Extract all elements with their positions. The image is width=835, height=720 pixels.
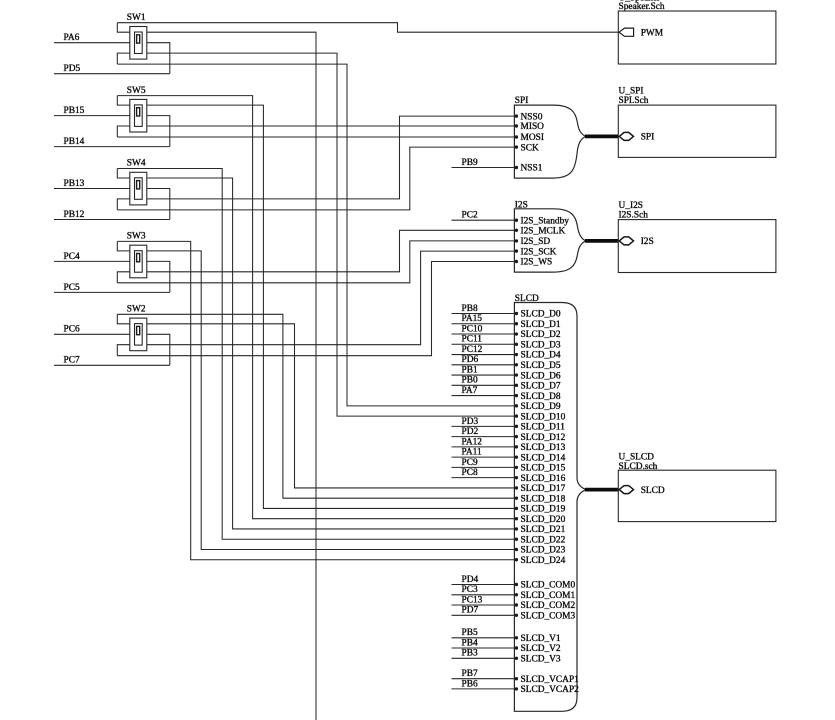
harness pin I2S_WS xyxy=(515,258,553,268)
pin label PB12 xyxy=(54,210,170,220)
svg-text:SLCD_VCAP1: SLCD_VCAP1 xyxy=(521,675,580,685)
wire SW1 top to PWM port xyxy=(117,23,618,33)
svg-text:SW4: SW4 xyxy=(127,159,146,169)
wire SW3 top to SLCD_D24 xyxy=(117,241,514,559)
svg-text:PB1: PB1 xyxy=(462,365,478,375)
svg-text:PA6: PA6 xyxy=(64,33,80,43)
wire SW3 elbow to I2S_SD xyxy=(117,241,514,283)
svg-text:I2S_Standby: I2S_Standby xyxy=(521,216,570,226)
harness pin SLCD_D10 xyxy=(515,412,566,422)
harness pin SLCD_D0 xyxy=(515,310,561,320)
harness pin SLCD_COM1 xyxy=(515,591,576,601)
svg-text:PC4: PC4 xyxy=(64,252,80,262)
sheet symbol U_SLCD xyxy=(618,453,776,522)
wire SW4 top to SLCD_D22 xyxy=(117,169,514,540)
wire SW4 top elbow xyxy=(117,169,130,179)
wire SW4 row2 to lower pin xyxy=(147,189,170,220)
wire SW5 top to SLCD_D20 xyxy=(117,96,514,519)
wire SW4 row3 elbow xyxy=(117,199,130,210)
svg-text:PB15: PB15 xyxy=(64,106,85,116)
harness pin SLCD_D24 xyxy=(515,556,566,566)
sheet symbol U_I2S xyxy=(618,201,776,273)
svg-text:PB12: PB12 xyxy=(64,210,85,220)
pin label PA6 xyxy=(54,33,130,43)
harness pin SLCD_VCAP2 xyxy=(515,685,579,695)
wire SW5 row1 to SLCD_D19 xyxy=(147,105,515,508)
svg-text:SLCD_COM3: SLCD_COM3 xyxy=(521,612,576,622)
harness cable SLCD xyxy=(585,488,620,492)
harness pin SLCD_D2 xyxy=(515,330,561,340)
pin label PD4 xyxy=(452,575,515,585)
svg-text:SLCD_D19: SLCD_D19 xyxy=(521,505,566,515)
switch SW5 xyxy=(127,86,147,132)
svg-text:PD5: PD5 xyxy=(64,64,81,74)
svg-text:PB5: PB5 xyxy=(462,628,478,638)
port PWM xyxy=(619,28,664,38)
harness pin SLCD_D23 xyxy=(515,546,566,556)
svg-text:SLCD_VCAP2: SLCD_VCAP2 xyxy=(521,685,580,695)
wire SW1 row2 to lower pin xyxy=(147,43,170,74)
pin label PD2 xyxy=(452,427,515,437)
svg-text:I2S_SD: I2S_SD xyxy=(521,237,551,247)
harness pin SLCD_D14 xyxy=(515,453,566,463)
wire SW1 top elbow xyxy=(117,23,130,33)
svg-text:SLCD_D20: SLCD_D20 xyxy=(521,515,566,525)
svg-text:PB7: PB7 xyxy=(462,669,478,679)
svg-text:SLCD: SLCD xyxy=(641,486,665,496)
harness pin NSS0 xyxy=(515,112,543,122)
svg-text:SLCD_D9: SLCD_D9 xyxy=(521,402,561,412)
svg-text:PC6: PC6 xyxy=(64,325,80,335)
wire SW5 row3 elbow xyxy=(117,126,130,137)
svg-text:SLCD_D0: SLCD_D0 xyxy=(521,310,561,320)
harness pin I2S_MCLK xyxy=(515,227,566,237)
pin label PB13 xyxy=(54,179,130,189)
svg-text:SLCD_D13: SLCD_D13 xyxy=(521,443,566,453)
svg-text:SLCD_COM0: SLCD_COM0 xyxy=(521,581,576,591)
harness pin SLCD_D21 xyxy=(515,525,566,535)
harness connector I2S xyxy=(514,200,585,272)
harness connector SPI xyxy=(514,96,585,178)
svg-text:NSS1: NSS1 xyxy=(521,164,543,174)
pin label PB1 xyxy=(452,365,515,375)
harness pin SLCD_D18 xyxy=(515,494,566,504)
svg-text:SLCD_D16: SLCD_D16 xyxy=(521,474,566,484)
svg-text:PD7: PD7 xyxy=(462,606,479,616)
wire SW4 row1 to SLCD_D21 xyxy=(147,178,515,529)
svg-text:PC3: PC3 xyxy=(462,585,478,595)
harness pin MISO xyxy=(515,122,544,132)
wire SW2 elbow to I2S_WS xyxy=(117,262,514,356)
svg-text:SLCD_D18: SLCD_D18 xyxy=(521,494,566,504)
harness pin SLCD_D16 xyxy=(515,474,566,484)
port SLCD xyxy=(619,486,665,496)
harness pin SLCD_D8 xyxy=(515,392,561,402)
svg-text:SW1: SW1 xyxy=(127,13,146,23)
svg-text:SLCD_COM2: SLCD_COM2 xyxy=(521,601,576,611)
svg-text:PB13: PB13 xyxy=(64,179,85,189)
sheet symbol U_Speaker xyxy=(618,0,776,64)
svg-text:SLCD_V3: SLCD_V3 xyxy=(521,655,561,665)
pin label PC8 xyxy=(452,468,515,478)
svg-text:SW3: SW3 xyxy=(127,232,146,242)
wire SW1 elbow to SLCD_D9 xyxy=(117,64,514,406)
svg-text:SLCD_D22: SLCD_D22 xyxy=(521,535,566,545)
wire SW4 elbow to SPI SCK xyxy=(117,147,514,210)
svg-text:SLCD_D15: SLCD_D15 xyxy=(521,464,566,474)
wire SW5 elbow to SPI MOSI xyxy=(117,136,514,138)
wire SW3 row3 elbow xyxy=(117,272,130,283)
svg-text:PB0: PB0 xyxy=(462,376,478,386)
svg-text:SLCD_D23: SLCD_D23 xyxy=(521,546,566,556)
wire SW2 row3 elbow xyxy=(117,345,130,356)
harness pin SLCD_D13 xyxy=(515,443,566,453)
sheet symbol U_SPI xyxy=(618,86,776,157)
harness pin SCK xyxy=(515,143,539,153)
svg-text:PA11: PA11 xyxy=(462,448,482,458)
wire SW3 row3 to I2S_MCLK xyxy=(147,230,515,271)
svg-text:SLCD_D10: SLCD_D10 xyxy=(521,412,566,422)
wire SW5 row3 to SPI MISO xyxy=(147,125,515,127)
svg-text:I2S_SCK: I2S_SCK xyxy=(521,247,557,257)
pin label PB8 xyxy=(452,304,515,314)
svg-text:I2S.Sch: I2S.Sch xyxy=(619,210,649,220)
svg-text:SPI: SPI xyxy=(641,133,655,143)
svg-text:SLCD_D8: SLCD_D8 xyxy=(521,392,561,402)
harness pin SLCD_D11 xyxy=(515,423,566,433)
svg-text:SLCD_V2: SLCD_V2 xyxy=(521,644,561,654)
pin label PB9 xyxy=(452,158,515,168)
svg-text:PC7: PC7 xyxy=(64,356,80,366)
harness pin SLCD_D20 xyxy=(515,515,566,525)
svg-text:SCK: SCK xyxy=(521,143,539,153)
svg-text:PWM: PWM xyxy=(641,29,664,39)
pin label PB6 xyxy=(452,679,515,689)
svg-text:PC11: PC11 xyxy=(462,335,483,345)
harness cable SPI xyxy=(585,135,620,139)
pin label PC4 xyxy=(54,252,130,262)
svg-text:SLCD_D11: SLCD_D11 xyxy=(521,423,566,433)
harness pin I2S_SD xyxy=(515,237,551,247)
svg-text:SLCD_D21: SLCD_D21 xyxy=(521,525,566,535)
svg-text:I2S: I2S xyxy=(641,237,654,247)
pin label PC12 xyxy=(452,345,515,355)
harness pin SLCD_D4 xyxy=(515,351,561,361)
harness cable I2S xyxy=(585,239,620,243)
wire SW3 top elbow xyxy=(117,241,130,251)
svg-text:PA12: PA12 xyxy=(462,437,483,447)
svg-text:PB9: PB9 xyxy=(462,158,478,168)
harness pin SLCD_D9 xyxy=(515,402,561,412)
svg-text:NSS0: NSS0 xyxy=(521,112,543,122)
svg-text:SLCD_D7: SLCD_D7 xyxy=(521,382,561,392)
wire SW3 row1 to SLCD_D23 xyxy=(147,251,515,550)
harness pin SLCD_D3 xyxy=(515,340,561,350)
pin label PC7 xyxy=(54,356,170,366)
pin label PB14 xyxy=(54,137,170,147)
pin label PC3 xyxy=(452,585,515,595)
switch SW3 xyxy=(127,232,147,278)
harness pin SLCD_D12 xyxy=(515,433,566,443)
svg-text:PA7: PA7 xyxy=(462,386,478,396)
svg-text:PC12: PC12 xyxy=(462,345,483,355)
harness pin SLCD_D15 xyxy=(515,464,566,474)
harness pin SLCD_VCAP1 xyxy=(515,675,579,685)
svg-text:PD3: PD3 xyxy=(462,417,479,427)
svg-text:PB8: PB8 xyxy=(462,304,478,314)
wire SW1 row3 elbow xyxy=(117,53,130,64)
svg-text:PC2: PC2 xyxy=(462,211,478,221)
svg-text:SLCD_D3: SLCD_D3 xyxy=(521,340,561,350)
svg-text:SLCD_D14: SLCD_D14 xyxy=(521,453,566,463)
harness pin NSS1 xyxy=(515,164,543,174)
svg-text:SLCD_V1: SLCD_V1 xyxy=(521,634,561,644)
svg-text:PC5: PC5 xyxy=(64,283,80,293)
pin label PD3 xyxy=(452,417,515,427)
svg-text:PA15: PA15 xyxy=(462,314,483,324)
switch SW1 xyxy=(127,13,147,59)
harness pin SLCD_COM0 xyxy=(515,581,576,591)
harness pin SLCD_V3 xyxy=(515,655,561,665)
harness pin SLCD_D1 xyxy=(515,320,561,330)
harness pin I2S_SCK xyxy=(515,247,557,257)
svg-text:I2S_MCLK: I2S_MCLK xyxy=(521,227,566,237)
harness pin SLCD_D19 xyxy=(515,505,566,515)
harness pin SLCD_COM2 xyxy=(515,601,576,611)
harness pin SLCD_D17 xyxy=(515,484,566,494)
pin label PC5 xyxy=(54,283,170,293)
svg-text:PB4: PB4 xyxy=(462,638,478,648)
wire SW1 row1 to page bottom xyxy=(147,32,316,720)
switch SW2 xyxy=(127,305,147,351)
harness pin MOSI xyxy=(515,133,544,143)
svg-text:PC8: PC8 xyxy=(462,468,478,478)
pin label PB7 xyxy=(452,669,515,679)
pin label PA15 xyxy=(452,314,515,324)
svg-text:PC9: PC9 xyxy=(462,458,478,468)
wire SW2 row1 to SLCD_D17 xyxy=(147,324,515,488)
wire SW2 row2 to lower pin xyxy=(147,334,170,365)
svg-text:SW5: SW5 xyxy=(127,86,146,96)
svg-text:I2S_WS: I2S_WS xyxy=(521,258,553,268)
pin label PC6 xyxy=(54,325,130,335)
svg-text:SLCD_D2: SLCD_D2 xyxy=(521,330,561,340)
svg-text:PC13: PC13 xyxy=(462,595,483,605)
harness pin SLCD_D7 xyxy=(515,382,561,392)
svg-text:SLCD_D1: SLCD_D1 xyxy=(521,320,561,330)
pin label PC2 xyxy=(452,211,515,221)
pin label PD5 xyxy=(54,64,170,74)
port I2S xyxy=(619,237,654,247)
wire SW1 row3 to SLCD_D10 xyxy=(147,53,515,416)
svg-text:PB14: PB14 xyxy=(64,137,85,147)
svg-text:SLCD_D12: SLCD_D12 xyxy=(521,433,566,443)
wire SW5 row2 to lower pin xyxy=(147,116,170,147)
pin label PB15 xyxy=(54,106,130,116)
svg-text:SLCD_D4: SLCD_D4 xyxy=(521,351,561,361)
harness connector SLCD xyxy=(514,294,586,711)
pin label PD6 xyxy=(452,355,515,365)
port SPI xyxy=(619,132,654,142)
pin label PB5 xyxy=(452,628,515,638)
svg-text:MISO: MISO xyxy=(521,122,545,132)
pin label PC13 xyxy=(452,595,515,605)
svg-text:PD2: PD2 xyxy=(462,427,479,437)
harness pin SLCD_D22 xyxy=(515,535,566,545)
wire SW2 row3 to I2S_SCK xyxy=(147,251,515,345)
pin label PC11 xyxy=(452,335,515,345)
pin label PB3 xyxy=(452,649,515,659)
svg-text:SLCD_D17: SLCD_D17 xyxy=(521,484,566,494)
svg-text:U_SPI: U_SPI xyxy=(619,86,644,96)
svg-text:PD6: PD6 xyxy=(462,355,479,365)
wire SW4 row3 to SPI NSS0 xyxy=(147,116,515,199)
svg-text:SLCD_D6: SLCD_D6 xyxy=(521,371,561,381)
svg-text:PC10: PC10 xyxy=(462,324,483,334)
svg-text:PB6: PB6 xyxy=(462,679,478,689)
pin label PC9 xyxy=(452,458,515,468)
wire SW3 row2 to lower pin xyxy=(147,261,170,292)
pin label PA11 xyxy=(452,448,515,458)
pin label PA12 xyxy=(452,437,515,447)
harness pin I2S_Standby xyxy=(515,216,570,226)
svg-text:SLCD_D5: SLCD_D5 xyxy=(521,361,561,371)
svg-text:SLCD_COM1: SLCD_COM1 xyxy=(521,591,576,601)
svg-text:PD4: PD4 xyxy=(462,575,479,585)
pin label PB0 xyxy=(452,376,515,386)
harness pin SLCD_COM3 xyxy=(515,612,576,622)
pin label PD7 xyxy=(452,606,515,616)
harness pin SLCD_D5 xyxy=(515,361,561,371)
harness pin SLCD_V2 xyxy=(515,644,561,654)
svg-text:SW2: SW2 xyxy=(127,305,146,315)
harness pin SLCD_V1 xyxy=(515,634,561,644)
svg-text:MOSI: MOSI xyxy=(521,133,544,143)
pin label PB4 xyxy=(452,638,515,648)
switch SW4 xyxy=(127,159,147,205)
svg-text:SLCD_D24: SLCD_D24 xyxy=(521,556,566,566)
wire SW2 top elbow xyxy=(117,314,130,324)
svg-text:PB3: PB3 xyxy=(462,649,478,659)
pin label PC10 xyxy=(452,324,515,334)
wire SW2 top to SLCD_D18 xyxy=(117,314,514,498)
harness pin SLCD_D6 xyxy=(515,371,561,381)
wire SW5 top elbow xyxy=(117,96,130,106)
svg-text:SPI.Sch: SPI.Sch xyxy=(619,96,649,106)
svg-text:U_I2S: U_I2S xyxy=(619,201,643,211)
pin label PA7 xyxy=(452,386,515,396)
